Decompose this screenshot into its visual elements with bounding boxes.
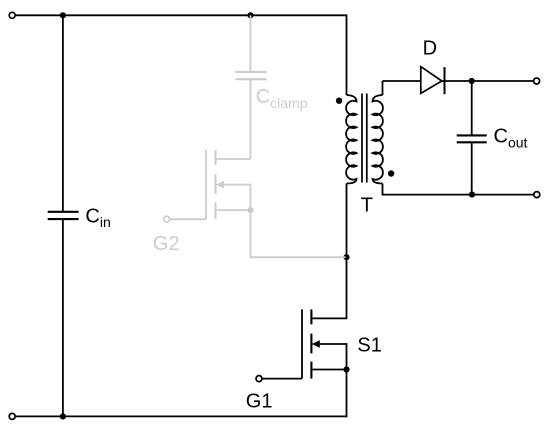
svg-text:Cout: Cout: [494, 125, 528, 150]
output terminal bottom-right: [534, 192, 540, 198]
wire S1 source to bottom rail: [346, 370, 348, 418]
svg-text:Cin: Cin: [85, 205, 110, 230]
transformer T secondary winding: [373, 95, 383, 184]
capacitor C_clamp (gray): [235, 72, 266, 79]
wire Cin lower lead: [62, 220, 64, 417]
wire top rail: [16, 14, 347, 16]
node junction bottom / Cout: [469, 192, 475, 198]
mosfet S1 source wire: [311, 369, 346, 371]
wire diode to output top: [442, 80, 534, 82]
mosfet S1 channel segments: [310, 309, 312, 378]
input terminal bottom-left: [9, 413, 15, 419]
svg-text:G1: G1: [246, 391, 273, 413]
output terminal top-right: [534, 78, 540, 84]
node junction clamp source (gray): [247, 207, 253, 213]
node junction diode/Cout: [469, 78, 475, 84]
clamp mosfet drain wire (gray): [216, 158, 251, 160]
clamp mosfet gate line (gray): [205, 150, 207, 219]
wire secondary top to diode: [383, 80, 421, 82]
wire G2 gate lead (gray): [170, 218, 206, 220]
wire Cin upper lead: [62, 15, 64, 211]
transformer phase dot primary: [336, 98, 342, 104]
clamp mosfet channel segments (gray): [214, 150, 216, 219]
svg-text:D: D: [423, 37, 437, 59]
wire transformer primary top lead: [346, 14, 348, 95]
wire Cclamp lower lead (gray): [250, 80, 252, 159]
transformer phase dot secondary: [388, 170, 394, 176]
node junction S1 source: [343, 366, 349, 372]
node junction top rail / Cin: [60, 12, 66, 18]
wire Cout lower lead: [471, 143, 473, 194]
node junction clamp/drain: [343, 254, 349, 260]
clamp mosfet body wire (gray): [223, 185, 251, 211]
node junction top rail / Cclamp: [247, 12, 253, 18]
capacitor C_out: [457, 135, 487, 142]
wire Cclamp upper lead (gray): [250, 15, 252, 71]
diode D triangle: [421, 67, 442, 94]
capacitor C_in: [48, 212, 79, 219]
mosfet S1 gate line: [301, 309, 303, 378]
clamp mosfet body arrow (gray): [216, 181, 224, 189]
wire Cout upper lead: [471, 81, 473, 135]
diode D cathode bar: [444, 67, 446, 94]
transformer T primary winding: [346, 95, 356, 184]
wire clamp source to drain node (gray): [251, 210, 346, 257]
svg-text:G2: G2: [153, 233, 180, 255]
wire secondary bottom lead: [383, 184, 534, 195]
wire bottom rail: [16, 415, 348, 417]
svg-text:Cclamp: Cclamp: [256, 86, 308, 111]
svg-text:S1: S1: [357, 334, 381, 356]
mosfet S1 body arrow: [312, 340, 320, 348]
transformer core: [362, 94, 367, 183]
gate terminal G1: [256, 376, 262, 382]
wire primary bottom to S1 drain: [311, 184, 346, 319]
gate terminal G2 (gray): [164, 216, 170, 222]
clamp mosfet source wire (gray): [216, 209, 251, 211]
mosfet S1 body wire: [319, 344, 347, 370]
node junction bottom rail / Cin: [60, 413, 66, 419]
wire G1 gate lead: [262, 378, 302, 380]
svg-text:T: T: [361, 194, 373, 216]
input terminal top-left: [9, 12, 15, 18]
wire secondary top lead: [382, 81, 384, 95]
